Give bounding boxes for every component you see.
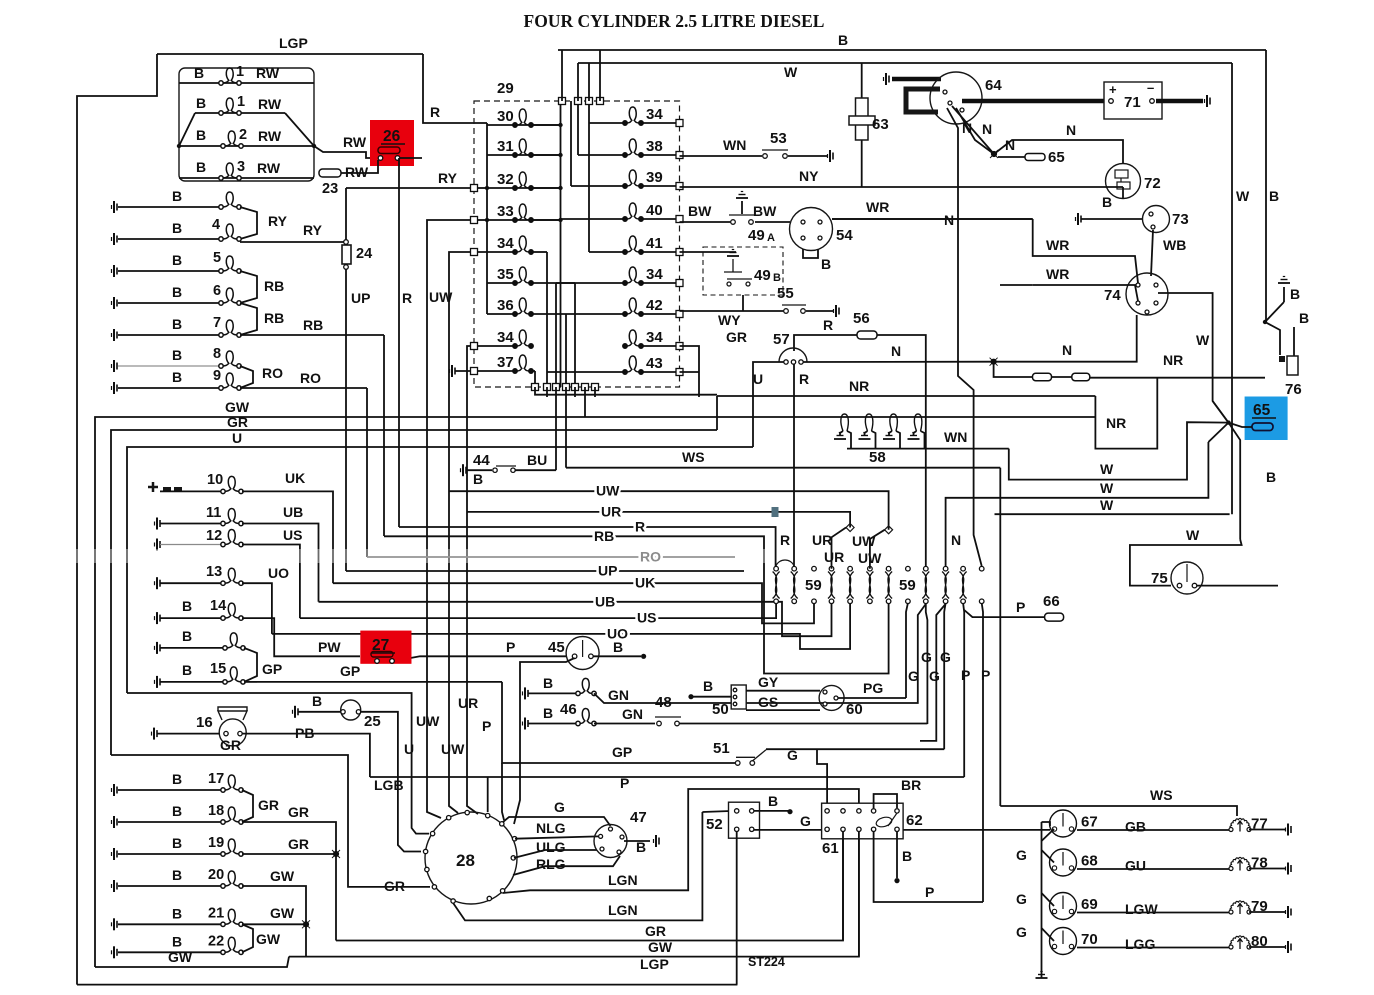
fuse 33 <box>513 204 533 222</box>
svg-text:B: B <box>172 252 182 268</box>
svg-text:US: US <box>637 610 656 626</box>
svg-text:34: 34 <box>646 329 663 346</box>
wire GR rail <box>111 430 717 755</box>
svg-text:LGP: LGP <box>640 956 669 972</box>
wire junction to fuse 65 <box>998 156 1025 158</box>
svg-text:RW: RW <box>258 96 282 112</box>
switch 57 dome <box>779 348 807 362</box>
wire 34r stub <box>680 346 700 397</box>
switch 44 lever <box>493 466 516 470</box>
svg-text:B: B <box>172 188 182 204</box>
wire 79 ground lead <box>1249 911 1285 913</box>
svg-text:R: R <box>402 290 412 306</box>
svg-text:GW: GW <box>648 939 673 955</box>
svg-text:72: 72 <box>1144 175 1161 192</box>
instrument cluster 28 circle <box>425 812 517 904</box>
switch 6 <box>219 288 241 305</box>
wire 21-22 riser <box>242 924 253 952</box>
svg-text:B: B <box>773 272 781 284</box>
fuse 38 right <box>623 139 643 157</box>
svg-text:B: B <box>838 32 848 48</box>
svg-text:20: 20 <box>208 867 224 883</box>
pin 28-11 <box>512 837 516 841</box>
svg-text:55: 55 <box>777 285 794 302</box>
ground row4b <box>112 233 118 245</box>
svg-text:34: 34 <box>646 266 663 283</box>
switch 59 open pair 2 top contact <box>906 566 911 571</box>
wire GP out <box>244 681 257 683</box>
svg-text:B: B <box>172 905 182 921</box>
heater plug 58-4 loop <box>914 414 922 431</box>
svg-text:B: B <box>172 220 182 236</box>
svg-text:18: 18 <box>208 803 224 819</box>
wire GP row 15 <box>257 681 502 683</box>
wire UO riser <box>242 583 272 634</box>
wire fuse 34l lead <box>474 251 515 253</box>
wire NR line <box>717 395 1095 397</box>
ground 53 <box>828 150 834 162</box>
ground row20 <box>112 880 118 892</box>
svg-text:38: 38 <box>646 138 663 155</box>
svg-text:U: U <box>753 371 763 387</box>
wire G2 down <box>926 603 928 724</box>
switch 59b open pair bottom contact <box>979 599 984 604</box>
wire BU drop <box>555 387 557 470</box>
terminal fusebox top x562 <box>559 98 566 105</box>
battery feed symbol row10 <box>148 482 182 492</box>
svg-text:64: 64 <box>985 77 1002 94</box>
svg-text:W: W <box>1236 188 1250 204</box>
switch 17 <box>221 775 243 792</box>
pin 57 left <box>784 360 788 364</box>
svg-text:40: 40 <box>646 202 663 219</box>
wire row4b <box>118 238 220 240</box>
wire row19 <box>118 853 222 855</box>
svg-text:R: R <box>799 371 809 387</box>
wire RO row <box>367 556 735 558</box>
junction N mid <box>990 358 998 366</box>
ground row22 <box>112 946 118 958</box>
wire RO rail <box>366 388 368 557</box>
switch 59 wiper x850 blade <box>847 572 854 599</box>
switch 13 <box>221 568 243 585</box>
pin 52 bl <box>735 827 739 831</box>
svg-text:76: 76 <box>1285 381 1302 398</box>
ground 47 <box>654 835 660 847</box>
wire GN2 out <box>679 723 927 725</box>
wire N to fuses <box>994 362 1032 377</box>
fuse 36 <box>513 298 533 316</box>
terminal 27 left overlay <box>375 659 380 664</box>
switch 18 <box>221 807 243 824</box>
switch 19 <box>221 839 243 856</box>
wire GP row to 51 <box>502 682 736 763</box>
wire LGN1 row <box>503 789 859 893</box>
svg-text:UO: UO <box>268 565 289 581</box>
wire GR mid row <box>111 755 430 887</box>
temp transmitter 79 <box>1229 901 1251 914</box>
switch 59 wiper x832 blade <box>828 572 835 599</box>
fuse 65 blue <box>1252 423 1273 431</box>
wire GR rail down <box>716 396 718 430</box>
wire BU row <box>515 469 556 471</box>
pin 52 tr <box>750 809 754 813</box>
svg-text:N: N <box>951 532 961 548</box>
svg-text:B: B <box>1269 188 1279 204</box>
wire PG row <box>838 697 906 699</box>
wire fuse 39 right lead <box>641 185 679 187</box>
wire bottom frame to ST224 <box>77 984 737 986</box>
wire WR lower <box>1033 285 1138 301</box>
svg-text:69: 69 <box>1081 896 1098 913</box>
svg-text:B: B <box>196 159 206 175</box>
wire 58-3 right leg <box>896 431 900 449</box>
fuse 31 <box>513 139 533 157</box>
svg-text:N: N <box>891 343 901 359</box>
terminal 71 left <box>1109 99 1114 104</box>
switch 59 wiper x889 bottom contact <box>886 599 891 604</box>
fuse 26 <box>378 147 400 154</box>
cable battery ground <box>1156 99 1203 104</box>
svg-text:P: P <box>961 667 970 683</box>
wire UR rail 34b <box>467 346 478 814</box>
svg-text:UW: UW <box>441 741 465 757</box>
terminal fusebox bottom x556 <box>553 384 560 391</box>
wire GW to 61 <box>858 831 860 957</box>
svg-text:UP: UP <box>351 290 370 306</box>
svg-text:RY: RY <box>268 213 288 229</box>
pin 60 a <box>823 690 827 694</box>
switch 49A <box>729 215 755 224</box>
scan artifact blue speck <box>772 507 779 517</box>
wire row21 <box>118 923 222 925</box>
svg-text:B: B <box>821 256 831 272</box>
svg-text:N: N <box>944 212 954 228</box>
wire GW rail <box>95 417 1095 967</box>
svg-text:GS: GS <box>758 694 778 710</box>
wire 54 pedestal <box>803 249 818 258</box>
svg-text:UO: UO <box>607 625 628 641</box>
terminal fusebox right y283 <box>676 280 683 287</box>
svg-text:57: 57 <box>773 331 790 348</box>
wire junction to fuse 65b <box>1229 423 1253 427</box>
wire fuse 34 right lead <box>641 122 679 124</box>
junction diamond UR <box>846 524 854 532</box>
junction N 65 <box>990 150 998 158</box>
fuse 63 bar <box>849 116 875 125</box>
svg-text:B: B <box>1299 310 1309 326</box>
svg-text:16: 16 <box>196 714 213 731</box>
wire fuse 34 right lead <box>641 345 679 347</box>
wire RY row <box>346 187 474 189</box>
svg-text:UW: UW <box>596 483 620 499</box>
svg-text:61: 61 <box>822 840 839 857</box>
junction box rows 1-3 outline <box>179 68 314 181</box>
pin 57 right <box>799 360 803 364</box>
wire GN2 to 48 <box>594 723 655 725</box>
svg-text:13: 13 <box>206 564 222 580</box>
wire P row <box>370 776 964 778</box>
fuse 56 <box>857 331 877 339</box>
ground 49B <box>727 250 739 257</box>
svg-text:B: B <box>172 771 182 787</box>
svg-text:RLG: RLG <box>536 856 566 872</box>
svg-text:BU: BU <box>527 452 547 468</box>
svg-text:P: P <box>981 667 990 683</box>
fuse 66 <box>1045 613 1064 621</box>
svg-text:UB: UB <box>595 593 615 609</box>
wire top rail 589 <box>588 63 590 101</box>
svg-text:B: B <box>1102 194 1112 210</box>
wire WS bottom <box>1000 806 1237 816</box>
svg-text:26: 26 <box>383 128 401 145</box>
wire B to 73 <box>1081 218 1143 220</box>
wire LGG row <box>1077 947 1229 949</box>
pin 28-7 <box>425 867 429 871</box>
pin 45 left <box>572 654 577 659</box>
terminal fusebox right y252 <box>676 249 683 256</box>
wire UR sub riser <box>832 528 847 569</box>
svg-text:59: 59 <box>899 577 916 594</box>
wire RB rail <box>383 335 385 536</box>
ground row7 <box>112 329 118 341</box>
svg-text:PW: PW <box>318 639 341 655</box>
svg-text:21: 21 <box>208 905 224 921</box>
terminal fusebox right y186 <box>676 183 683 190</box>
temp transmitter 80 <box>1229 936 1251 949</box>
pin 28-10 <box>500 889 504 893</box>
svg-text:US: US <box>283 527 302 543</box>
svg-text:U: U <box>404 741 414 757</box>
fuse 34 <box>513 236 533 254</box>
svg-text:GW: GW <box>225 399 250 415</box>
wire row14 <box>160 617 222 619</box>
fuse 65 top <box>1025 154 1045 161</box>
svg-text:B: B <box>172 369 182 385</box>
svg-text:RW: RW <box>258 128 282 144</box>
wire fuse 30 row <box>487 124 560 126</box>
svg-text:49: 49 <box>748 227 765 244</box>
wire RO out <box>240 387 367 389</box>
terminal fusebox top x578 <box>575 98 582 105</box>
svg-text:33: 33 <box>497 203 514 220</box>
svg-text:24: 24 <box>356 246 372 262</box>
wire row4a <box>118 206 220 208</box>
wire G1 down <box>906 603 908 698</box>
pin 61 bottom x897 <box>895 827 899 831</box>
pin 28-6 <box>430 831 434 835</box>
svg-text:32: 32 <box>497 171 514 188</box>
wire GN1 out <box>594 604 926 703</box>
wire row3 <box>179 145 314 147</box>
temp transmitter 78 <box>1229 857 1251 870</box>
wire 77 ground lead <box>1249 829 1285 831</box>
pin 64 b <box>948 101 952 105</box>
pin 50 c <box>733 702 737 706</box>
svg-text:1: 1 <box>236 64 244 80</box>
pin 54 d <box>818 236 822 240</box>
pin 54 c <box>801 236 805 240</box>
wire RB row <box>384 536 889 673</box>
switch 1 row2 <box>219 98 241 115</box>
svg-text:58: 58 <box>869 449 886 466</box>
svg-text:G: G <box>929 668 940 684</box>
svg-text:GU: GU <box>1125 858 1146 874</box>
svg-text:12: 12 <box>206 528 222 544</box>
terminal fusebox bottom x595 <box>592 384 599 391</box>
pin 47 d <box>617 850 621 854</box>
wire GP down to 28 <box>502 763 504 820</box>
pin 60 c <box>834 696 838 700</box>
wire top rail 600 <box>599 50 601 101</box>
scan artifact light band <box>0 549 765 563</box>
wire inner rail 547 <box>546 252 548 387</box>
switch row4a <box>219 192 241 209</box>
ground 58-2 <box>859 433 871 440</box>
svg-text:PG: PG <box>863 680 883 696</box>
wire 64 pin N rail <box>947 108 958 362</box>
wire G mystery down <box>920 604 946 741</box>
svg-text:9: 9 <box>213 368 221 384</box>
pin 54 b <box>818 220 822 224</box>
terminal B 52 <box>787 809 792 814</box>
wire P to 66 <box>964 610 1044 617</box>
ground row17 <box>112 784 118 796</box>
svg-text:B: B <box>182 598 192 614</box>
wire 52TL left link <box>702 811 734 812</box>
wire fuse 35 lead <box>487 282 515 284</box>
svg-text:50: 50 <box>712 701 729 718</box>
junction B right <box>1263 320 1267 324</box>
svg-text:–: – <box>1147 80 1154 95</box>
svg-text:WR: WR <box>1046 266 1069 282</box>
svg-text:47: 47 <box>630 809 647 826</box>
svg-text:RW: RW <box>343 134 367 150</box>
wire 39 left lead <box>571 185 625 187</box>
wire RY-UP rail <box>345 188 347 571</box>
highlight box 27 overlay <box>360 631 411 664</box>
wire 35 lead right <box>531 282 575 284</box>
wire row8-9 riser <box>240 366 253 388</box>
ground 67-70 <box>1036 972 1048 979</box>
svg-text:UK: UK <box>635 575 655 591</box>
wire fuse 42 right lead <box>641 313 679 315</box>
svg-text:B: B <box>172 867 182 883</box>
terminal 71 right <box>1150 99 1155 104</box>
solenoid 64 circle <box>930 72 982 124</box>
junction W blue <box>1226 420 1230 424</box>
wire 62 B down <box>896 832 898 879</box>
pin 16 right <box>238 731 242 735</box>
svg-text:GP: GP <box>612 744 632 760</box>
wire 45 P down <box>514 658 575 824</box>
svg-text:G: G <box>1016 891 1027 907</box>
ground 58-3 <box>883 433 895 440</box>
fusebox 29 outline <box>474 101 680 387</box>
svg-text:B: B <box>196 127 206 143</box>
wire B drop to fusebox <box>561 50 563 101</box>
wire row6-7 riser <box>240 303 257 335</box>
pin 28-5 <box>423 849 427 853</box>
svg-text:10: 10 <box>207 472 223 488</box>
switch 59 open pair 2 bottom contact <box>906 599 911 604</box>
connector 52 box <box>729 802 760 838</box>
wire W 74 to junction <box>1158 293 1229 423</box>
svg-text:WY: WY <box>718 312 741 328</box>
switch 55 <box>782 305 806 313</box>
warning lamp 70 <box>1050 928 1077 955</box>
wire row to rail560 y155 <box>531 154 561 156</box>
svg-text:U: U <box>232 430 242 446</box>
ground 78 <box>1286 863 1292 875</box>
wire 46a <box>528 692 578 694</box>
wire UR row <box>467 512 850 528</box>
wire row15a <box>160 647 224 649</box>
svg-text:RB: RB <box>594 528 614 544</box>
wire WY row <box>680 310 785 312</box>
cable 64 feed <box>892 77 941 82</box>
svg-text:25: 25 <box>364 713 381 730</box>
wire BW row <box>680 221 732 223</box>
switch 59 open pair 1 bottom contact <box>812 599 817 604</box>
svg-text:65: 65 <box>1253 402 1271 419</box>
fuse 35 <box>513 267 533 285</box>
svg-text:W: W <box>1186 527 1200 543</box>
svg-text:BW: BW <box>688 203 712 219</box>
pin 61 top x827 <box>825 809 829 813</box>
wire left frame corner <box>77 54 157 985</box>
wire WS drop <box>565 387 567 468</box>
fuse unlabeled b <box>1072 373 1090 381</box>
wire 64 pin to N65 <box>956 108 994 154</box>
wire row2 right drop <box>285 113 314 146</box>
svg-text:A: A <box>767 232 775 244</box>
svg-text:46: 46 <box>560 701 577 718</box>
flasher 72 internals <box>1115 170 1130 189</box>
switch 11 <box>221 509 243 526</box>
terminal fusebox bottom x547 <box>544 384 551 391</box>
svg-text:28: 28 <box>456 851 475 870</box>
svg-text:56: 56 <box>853 310 870 327</box>
svg-text:RY: RY <box>303 222 323 238</box>
wire 58-3 left leg <box>889 431 892 436</box>
wire ULG row <box>514 850 597 858</box>
terminal fusebox left y188 <box>471 185 478 192</box>
switch 4 <box>219 224 241 241</box>
wire 58 rail <box>847 448 1009 450</box>
wire G twig 70 <box>1042 928 1055 941</box>
wire UP row <box>346 570 744 572</box>
wire GW drop <box>584 387 586 417</box>
pin 25 right <box>356 710 360 714</box>
wire square575 stub <box>574 387 576 397</box>
svg-text:23: 23 <box>322 181 338 197</box>
svg-text:GW: GW <box>256 931 281 947</box>
wire W2 line <box>946 442 1209 569</box>
wire row5 <box>118 270 220 272</box>
wire LGW row <box>1077 912 1229 914</box>
pin 75 right <box>1192 583 1197 588</box>
wire US row <box>300 603 776 618</box>
warning lamp 68 <box>1050 849 1077 876</box>
svg-text:54: 54 <box>836 227 853 244</box>
svg-text:73: 73 <box>1172 211 1189 228</box>
svg-text:RB: RB <box>303 317 323 333</box>
switch 59 wiper x850 top contact <box>848 566 853 571</box>
wire WS row <box>566 467 1000 469</box>
wire GW 20 out <box>242 886 306 957</box>
svg-text:G: G <box>1016 847 1027 863</box>
